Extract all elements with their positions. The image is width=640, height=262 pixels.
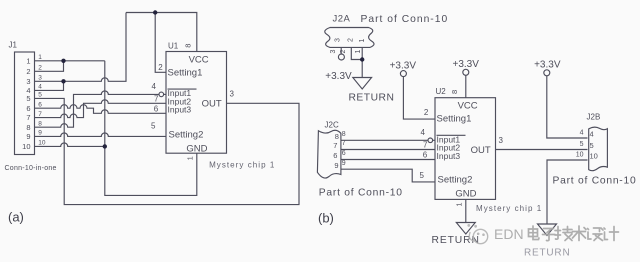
svg-text:VCC: VCC	[458, 101, 478, 112]
svg-text:Setting1: Setting1	[437, 114, 472, 125]
svg-text:+3.3V: +3.3V	[534, 60, 561, 71]
node junction VCC rail	[153, 10, 157, 14]
connector J2A body	[325, 28, 374, 48]
svg-text:3: 3	[230, 90, 235, 99]
svg-text:5: 5	[151, 122, 156, 131]
svg-text:2: 2	[340, 49, 347, 53]
svg-text:VCC: VCC	[189, 55, 209, 66]
wire J1 pin5 row to OUT loop	[35, 98, 300, 204]
wire J1 pin7 row to U1 Input2	[35, 100, 167, 118]
wire J1 pin1 row to vertical bus	[35, 60, 105, 62]
wire J2C pin8 to U2 Input1	[341, 139, 428, 141]
watermark EDN logo and caption	[467, 224, 618, 244]
svg-text:2: 2	[424, 108, 429, 117]
wire J2C pin7 to U2 Input2	[341, 149, 435, 151]
svg-text:J2A: J2A	[333, 14, 351, 25]
U2 Input1 overline	[437, 134, 466, 136]
node junction J1 pins1-2	[61, 59, 65, 63]
op-amp U2 mystery chip body	[435, 98, 496, 200]
svg-text:3: 3	[330, 49, 337, 53]
svg-text:6: 6	[154, 104, 159, 113]
svg-text:Setting2: Setting2	[438, 174, 473, 185]
power +3.3V circle for U2 VCC	[463, 69, 469, 75]
svg-text:3: 3	[499, 136, 504, 145]
wire J2A pin3 stub	[340, 47, 342, 54]
node junction J2A pins1-2	[360, 57, 364, 61]
svg-text:4: 4	[421, 128, 426, 137]
svg-text:RETURN: RETURN	[349, 93, 395, 104]
connector J2B body	[589, 127, 608, 171]
wire VCC top rail to U1 pin8	[126, 13, 197, 52]
svg-text:+3.3V: +3.3V	[390, 61, 417, 72]
wire J1 pin3 row to VCC rail riser	[35, 13, 127, 82]
svg-text:7: 7	[423, 141, 428, 150]
power +3.3V terminal circle J2A pin3	[338, 54, 344, 60]
svg-text:8: 8	[183, 44, 192, 48]
power +3.3V circle for J2B pin4	[544, 70, 550, 76]
svg-text:U1: U1	[168, 42, 179, 51]
U1 pin4 inversion bubble	[159, 92, 164, 97]
svg-text:+3.3V: +3.3V	[452, 59, 479, 70]
svg-text:GND: GND	[455, 189, 476, 200]
svg-text:J2B: J2B	[587, 113, 601, 122]
svg-text:2: 2	[158, 63, 163, 72]
svg-text:7: 7	[154, 94, 159, 103]
wire J2A pin1 stub to RETURN	[361, 47, 363, 77]
power +3.3V circle for U2 Setting1	[400, 71, 406, 77]
wire J1 pin8 row to U1 Input1	[35, 91, 160, 127]
wire J2C pin9 to U2 Setting2	[341, 169, 435, 182]
svg-text:(b): (b)	[318, 211, 334, 226]
svg-text:GND: GND	[186, 143, 207, 154]
svg-text:J2C: J2C	[325, 121, 339, 130]
svg-text:OUT: OUT	[202, 99, 222, 110]
wire vertical bus pins1-2 down to pin10/GND	[104, 61, 106, 147]
svg-text:5: 5	[420, 171, 425, 180]
svg-text:2: 2	[348, 38, 355, 42]
wire U1 GND loop	[105, 146, 197, 195]
svg-text:Conn-10-in-one: Conn-10-in-one	[5, 165, 57, 172]
ground RETURN symbol J2B	[538, 224, 557, 236]
U2 pin4 inversion bubble	[428, 138, 433, 143]
svg-text:Part of Conn-10: Part of Conn-10	[553, 176, 637, 187]
svg-text:1: 1	[355, 49, 362, 53]
node junction GND pin10	[103, 144, 107, 148]
ground RETURN symbol J2A	[353, 78, 372, 90]
svg-text:+3.3V: +3.3V	[325, 71, 352, 82]
svg-text:Setting2: Setting2	[169, 129, 204, 140]
svg-text:Input3: Input3	[437, 151, 461, 161]
connector J1	[15, 52, 35, 155]
node junction J1 pins3-4	[61, 79, 65, 83]
wire J2B pin10 to RETURN	[547, 160, 588, 224]
svg-text:(a): (a)	[8, 210, 24, 225]
svg-text:1: 1	[455, 202, 464, 206]
wire J1 pin10 row to GND bus	[35, 143, 105, 147]
ground RETURN symbol U2	[456, 223, 475, 235]
U2 pin4 bubble link	[433, 139, 435, 141]
svg-text:U2: U2	[436, 87, 447, 96]
wire U2 OUT pin3 to J2B pin5	[496, 149, 588, 151]
svg-text:Setting1: Setting1	[168, 68, 203, 79]
op-amp U1 mystery chip body	[166, 52, 227, 154]
wire J2A pin2 stub	[351, 47, 362, 59]
wire +3.3V to J2B pin4	[547, 76, 588, 138]
svg-text:Mystery chip 1: Mystery chip 1	[209, 161, 275, 170]
wire J1 pin2 row tied up to pin1	[35, 61, 64, 72]
wire J2C pin6 to U2 Input3	[341, 159, 435, 161]
svg-text:EDN: EDN	[494, 226, 524, 242]
svg-text:Mystery chip 1: Mystery chip 1	[476, 204, 542, 213]
U1 Input1 overline	[168, 88, 197, 90]
svg-text:8: 8	[450, 90, 459, 94]
wire +3.3V to U2 pin8 VCC	[465, 75, 467, 97]
wire U1 pin4 bubble link	[164, 93, 166, 95]
wire J1 pin6 row to U1 Input3	[35, 105, 167, 114]
svg-text:1: 1	[359, 39, 366, 43]
svg-text:RETURN: RETURN	[524, 248, 570, 259]
svg-text:Input3: Input3	[168, 105, 192, 115]
wire rail to U1 Setting1 pin2	[155, 13, 166, 73]
wire U2 GND to RETURN	[465, 199, 467, 222]
wire J1 pin9 row to U1 Setting2	[35, 133, 167, 137]
wire J1 pin4 row tied up to pin3	[35, 81, 64, 90]
connector J2C body	[317, 130, 341, 178]
svg-text:Part of Conn-10: Part of Conn-10	[319, 187, 403, 198]
svg-text:1: 1	[186, 156, 195, 160]
svg-text:3: 3	[334, 38, 341, 42]
svg-text:Part of Conn-10: Part of Conn-10	[361, 14, 449, 25]
svg-text:OUT: OUT	[471, 145, 491, 156]
wire +3.3V to U2 pin2 Setting1	[403, 77, 435, 120]
svg-text:J1: J1	[9, 41, 18, 50]
svg-text:4: 4	[152, 82, 157, 91]
svg-text:6: 6	[423, 151, 428, 160]
